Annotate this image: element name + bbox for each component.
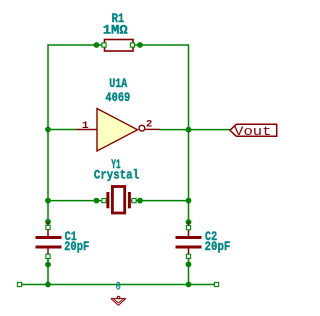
capacitor C2 bottom plate	[176, 246, 202, 249]
junction crystal rail right	[186, 198, 192, 204]
crystal Y1 body	[112, 187, 124, 214]
junction crystal pin right	[137, 198, 143, 204]
capacitor C2 top plate	[176, 236, 202, 239]
capacitor C2 top pin	[188, 222, 190, 236]
crystal Y1 right electrode	[128, 192, 131, 208]
wire crystal right	[134, 200, 189, 202]
junction C2 top	[186, 219, 192, 225]
capacitor C1 bottom plate	[36, 246, 62, 249]
crystal Y1 pin left	[104, 200, 106, 202]
wire end square bottom-left	[17, 282, 21, 286]
svg-text:20pF: 20pF	[205, 239, 231, 254]
pin square Y1 left	[102, 199, 106, 203]
op-amp U1A triangle	[97, 109, 138, 152]
svg-text:Vout: Vout	[234, 124, 271, 139]
capacitor C2 bottom pin	[188, 249, 190, 257]
junction top-right of R1	[137, 42, 143, 48]
junction crystal pin left	[94, 198, 100, 204]
junction bottom rail right	[186, 282, 192, 288]
svg-text:1MΩ: 1MΩ	[103, 22, 128, 37]
junction C1 top	[45, 219, 51, 225]
capacitor C1 bottom pin	[47, 249, 49, 257]
wire inverter output to Vout	[160, 129, 231, 131]
wire bottom rail	[20, 284, 217, 286]
wire inverter input	[48, 129, 77, 131]
svg-text:20pF: 20pF	[64, 239, 89, 254]
op-amp U1A pin 2 line	[145, 128, 159, 130]
wire right vertical upper	[188, 44, 190, 222]
junction top-left of R1	[94, 42, 100, 48]
svg-text:1: 1	[82, 121, 89, 132]
svg-text:2: 2	[146, 119, 153, 130]
pin square R1 right	[130, 43, 134, 47]
op-amp U1A bubble	[139, 125, 145, 131]
crystal Y1 pin right	[131, 200, 134, 202]
wire left vertical lower	[47, 256, 49, 285]
junction inverter input	[45, 127, 51, 133]
junction C2 bottom	[186, 261, 192, 267]
svg-text:U1A: U1A	[109, 76, 127, 91]
resistor R1 body	[105, 40, 134, 52]
ground symbol	[111, 296, 126, 305]
pin square C1 top	[46, 225, 50, 229]
wire end square bottom-right	[214, 282, 218, 286]
crystal Y1 left electrode	[106, 192, 109, 208]
pin square C2 bottom	[186, 254, 190, 258]
capacitor C1 top plate	[36, 236, 62, 239]
pin square R1 left	[102, 43, 106, 47]
wire crystal left	[48, 200, 104, 202]
junction C1 bottom	[45, 262, 51, 268]
wire top rail left of R1	[48, 44, 104, 46]
pin square Y1 right	[132, 199, 136, 203]
pin square C2 top	[186, 226, 190, 230]
svg-text:Crystal: Crystal	[94, 168, 139, 183]
hierarchical label Vout	[230, 124, 277, 136]
wire left vertical upper	[47, 44, 49, 222]
pin square C1 bottom	[46, 254, 50, 258]
capacitor C1 top pin	[47, 222, 49, 236]
junction crystal rail left	[45, 198, 51, 204]
op-amp U1A pin 1 line	[77, 129, 98, 131]
wire top rail right of R1	[133, 44, 189, 46]
junction bottom rail left	[45, 282, 51, 288]
svg-text:4069: 4069	[105, 90, 130, 105]
junction inverter output	[186, 127, 192, 133]
svg-text:0: 0	[116, 282, 121, 294]
wire right vertical lower	[188, 256, 190, 285]
